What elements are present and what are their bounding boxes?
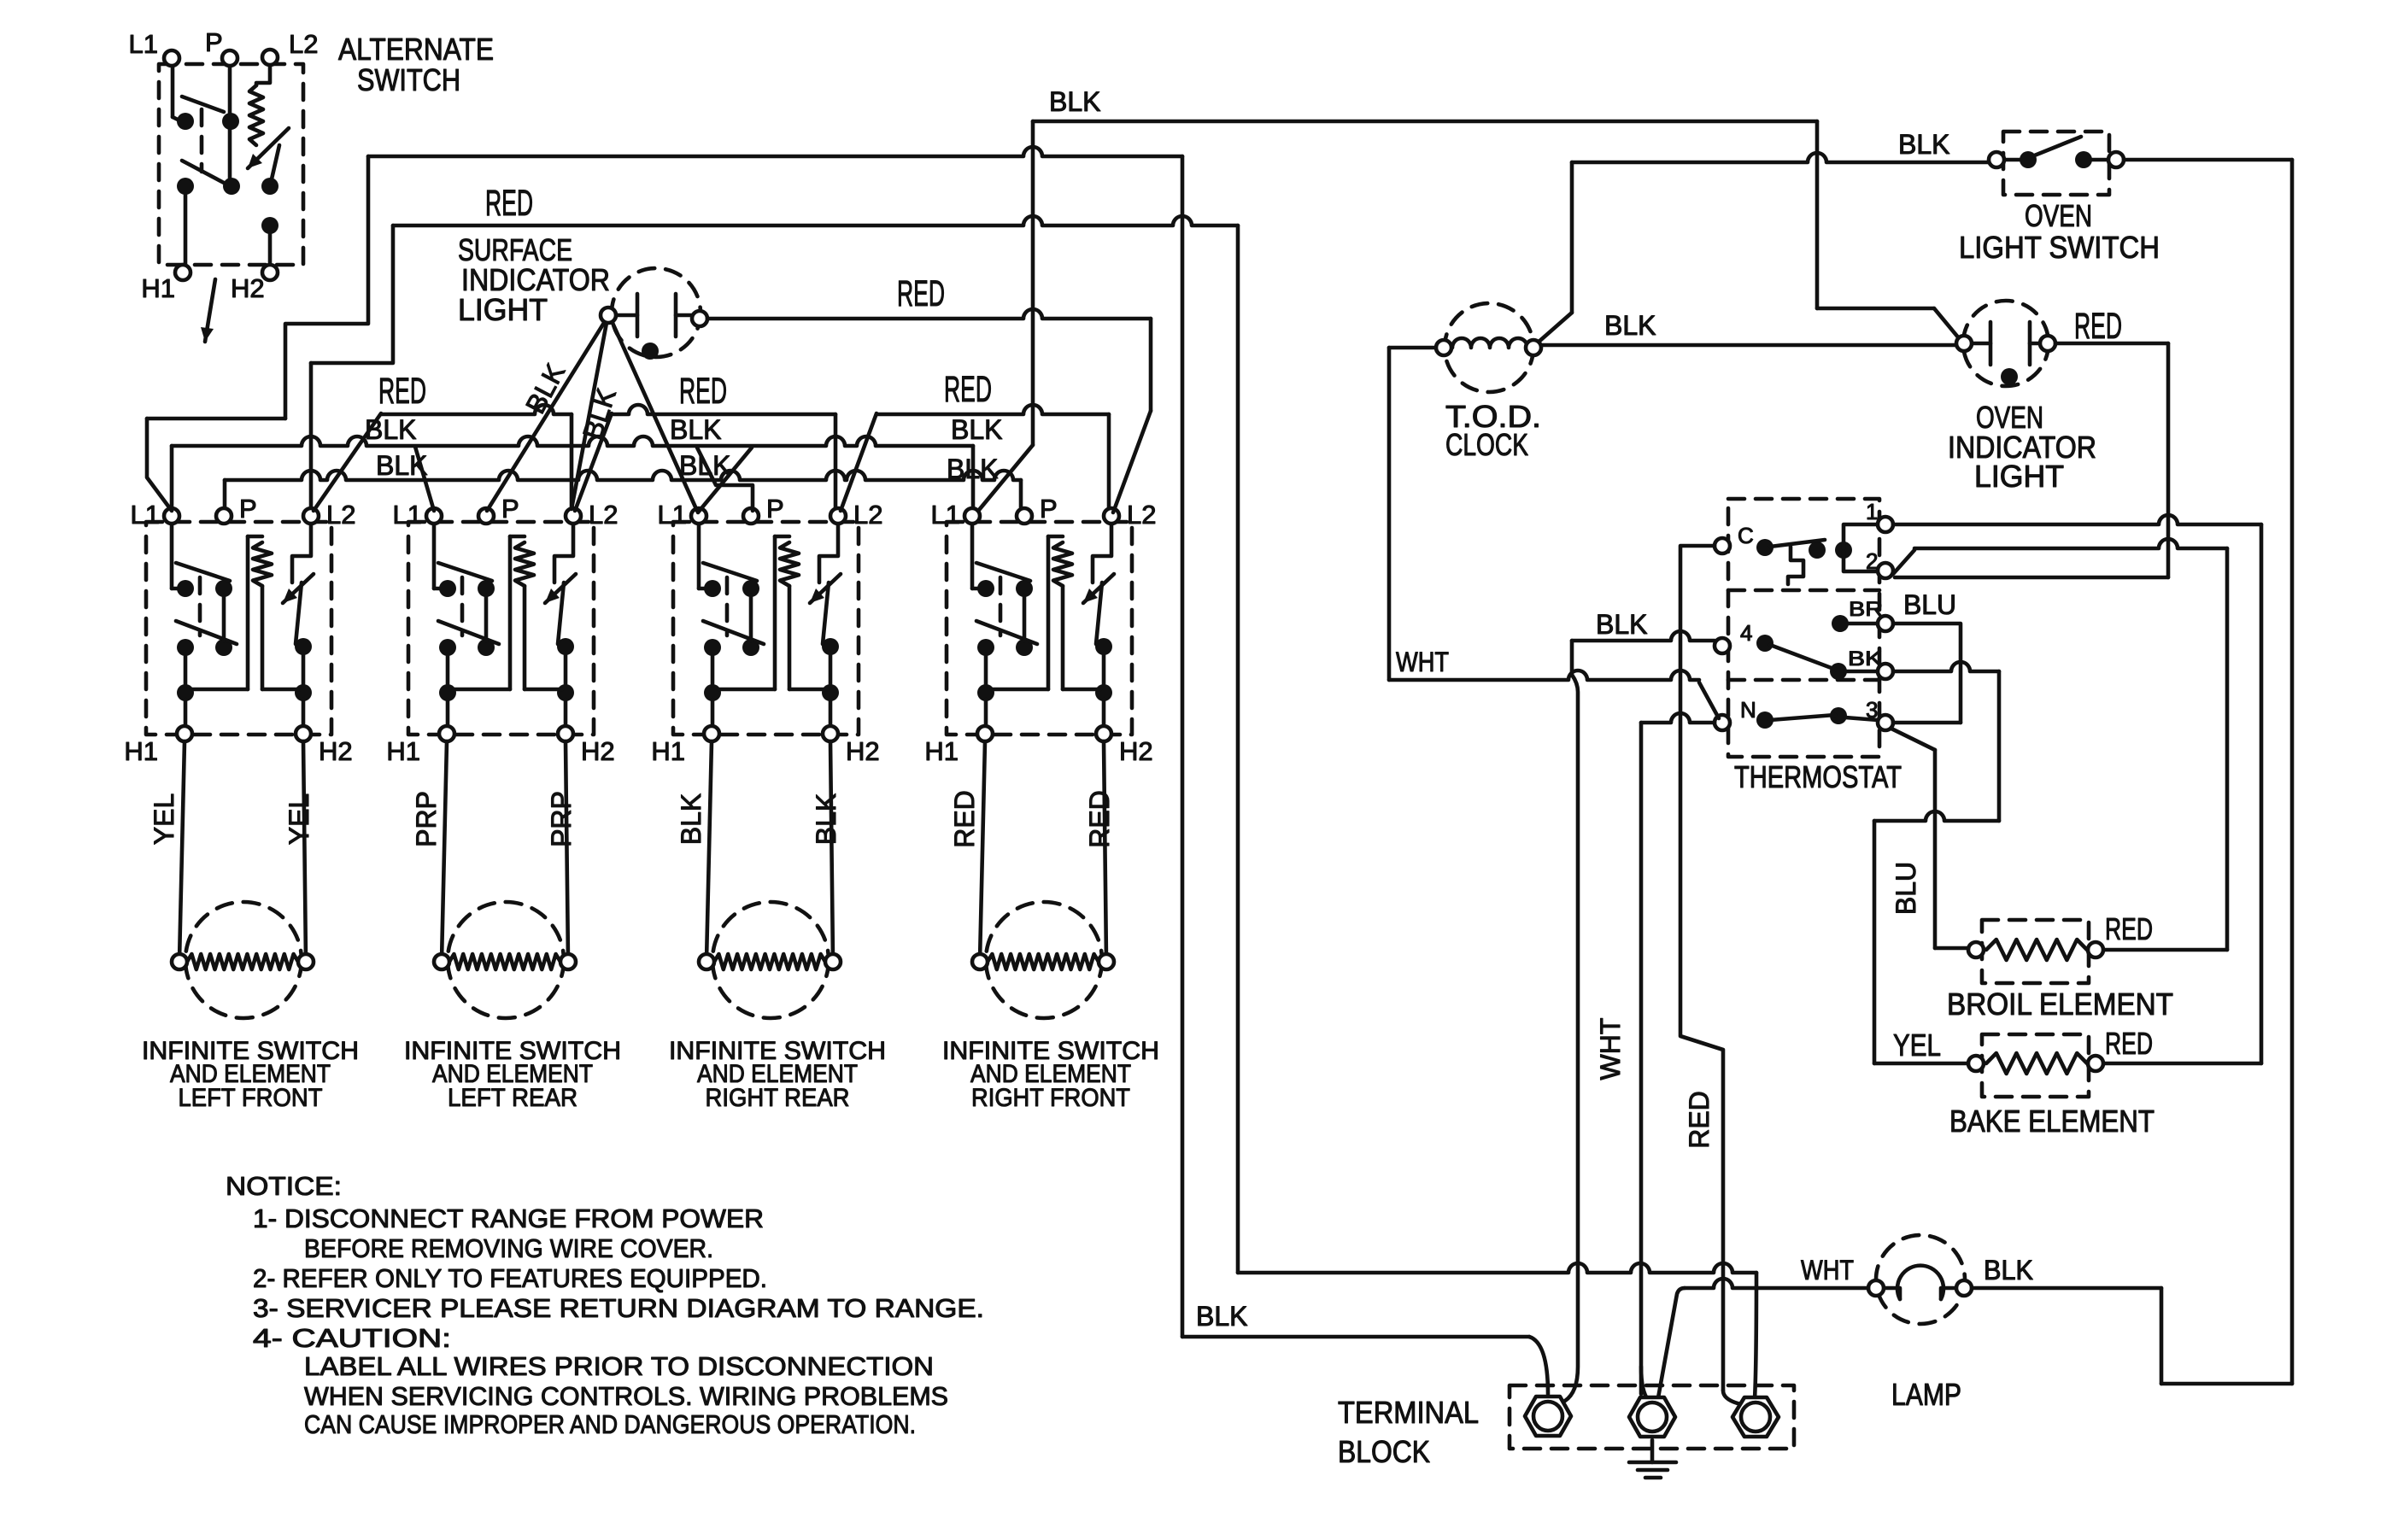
svg-text:CLOCK: CLOCK bbox=[1445, 427, 1528, 462]
svg-text:BAKE ELEMENT: BAKE ELEMENT bbox=[1949, 1104, 2155, 1139]
svg-text:LABEL ALL WIRES PRIOR TO DISCO: LABEL ALL WIRES PRIOR TO DISCONNECTION bbox=[304, 1351, 934, 1381]
svg-text:LIGHT SWITCH: LIGHT SWITCH bbox=[1959, 230, 2160, 265]
svg-text:OVEN: OVEN bbox=[2025, 198, 2092, 233]
svg-text:BR: BR bbox=[1849, 598, 1883, 621]
svg-text:BLK: BLK bbox=[679, 450, 730, 481]
svg-text:P: P bbox=[1040, 494, 1058, 524]
svg-text:RED: RED bbox=[485, 183, 533, 224]
svg-text:RED: RED bbox=[2105, 911, 2153, 946]
svg-text:4: 4 bbox=[1740, 620, 1752, 646]
svg-text:H1: H1 bbox=[124, 736, 158, 766]
svg-text:YEL: YEL bbox=[149, 793, 179, 845]
svg-text:1- DISCONNECT RANGE FROM POWER: 1- DISCONNECT RANGE FROM POWER bbox=[253, 1203, 764, 1233]
svg-text:H1: H1 bbox=[386, 736, 420, 766]
svg-text:L2: L2 bbox=[326, 500, 355, 530]
svg-text:LIGHT: LIGHT bbox=[1974, 459, 2064, 494]
svg-text:2: 2 bbox=[1866, 548, 1878, 574]
svg-text:BLU: BLU bbox=[1891, 862, 1921, 915]
svg-text:3- SERVICER PLEASE RETURN DIAG: 3- SERVICER PLEASE RETURN DIAGRAM TO RAN… bbox=[253, 1293, 984, 1323]
svg-text:BEFORE REMOVING WIRE COVER.: BEFORE REMOVING WIRE COVER. bbox=[304, 1233, 713, 1263]
svg-text:BLK: BLK bbox=[1984, 1255, 2033, 1285]
svg-text:H2: H2 bbox=[581, 736, 615, 766]
svg-text:RED: RED bbox=[378, 371, 426, 412]
svg-text:L2: L2 bbox=[589, 500, 618, 530]
svg-text:C: C bbox=[1738, 523, 1754, 548]
svg-text:YEL: YEL bbox=[284, 793, 314, 845]
svg-text:L2: L2 bbox=[853, 500, 882, 530]
svg-text:H2: H2 bbox=[319, 736, 353, 766]
svg-text:RED: RED bbox=[679, 371, 727, 412]
svg-text:LAMP: LAMP bbox=[1891, 1377, 1961, 1412]
svg-text:L1: L1 bbox=[658, 500, 687, 530]
svg-text:BLK: BLK bbox=[947, 454, 998, 484]
svg-text:BLU: BLU bbox=[1903, 589, 1956, 620]
svg-text:RED: RED bbox=[944, 369, 992, 410]
svg-text:L1: L1 bbox=[393, 500, 422, 530]
svg-text:BLK: BLK bbox=[1596, 609, 1647, 640]
svg-text:WHT: WHT bbox=[1396, 647, 1449, 677]
svg-text:2- REFER ONLY TO FEATURES EQUI: 2- REFER ONLY TO FEATURES EQUIPPED. bbox=[253, 1263, 767, 1293]
svg-text:RED: RED bbox=[1684, 1091, 1715, 1149]
svg-text:BLOCK: BLOCK bbox=[1338, 1434, 1430, 1469]
svg-text:H1: H1 bbox=[651, 736, 685, 766]
svg-text:BLK: BLK bbox=[1049, 86, 1100, 117]
svg-text:L1: L1 bbox=[931, 500, 960, 530]
svg-text:RIGHT REAR: RIGHT REAR bbox=[706, 1084, 850, 1112]
svg-text:N: N bbox=[1740, 697, 1756, 723]
svg-text:BLK: BLK bbox=[1604, 310, 1656, 341]
svg-text:BK: BK bbox=[1848, 647, 1882, 670]
svg-text:RIGHT FRONT: RIGHT FRONT bbox=[971, 1084, 1130, 1112]
svg-text:CAN CAUSE IMPROPER AND DANGERO: CAN CAUSE IMPROPER AND DANGEROUS OPERATI… bbox=[304, 1409, 916, 1439]
svg-text:H2: H2 bbox=[231, 273, 265, 303]
svg-text:LEFT REAR: LEFT REAR bbox=[448, 1084, 577, 1112]
svg-text:WHT: WHT bbox=[1595, 1018, 1626, 1080]
svg-text:PRP: PRP bbox=[546, 791, 577, 847]
svg-text:LEFT FRONT: LEFT FRONT bbox=[179, 1084, 323, 1112]
svg-text:BLK: BLK bbox=[1196, 1301, 1247, 1332]
svg-text:BLK: BLK bbox=[811, 793, 841, 845]
svg-text:H2: H2 bbox=[1119, 736, 1153, 766]
svg-text:ALTERNATE: ALTERNATE bbox=[338, 32, 494, 67]
svg-text:L1: L1 bbox=[129, 29, 158, 59]
svg-text:TERMINAL: TERMINAL bbox=[1338, 1395, 1479, 1430]
svg-text:3: 3 bbox=[1866, 697, 1878, 723]
svg-text:RED: RED bbox=[2105, 1026, 2153, 1061]
svg-text:BLK: BLK bbox=[365, 414, 416, 445]
svg-text:WHT: WHT bbox=[1801, 1255, 1854, 1285]
svg-text:H1: H1 bbox=[924, 736, 959, 766]
svg-text:RED: RED bbox=[897, 273, 945, 314]
svg-text:BLK: BLK bbox=[951, 414, 1002, 445]
svg-text:PRP: PRP bbox=[411, 791, 442, 847]
svg-text:WHEN SERVICING CONTROLS. WIRIN: WHEN SERVICING CONTROLS. WIRING PROBLEMS bbox=[304, 1381, 948, 1411]
svg-text:SWITCH: SWITCH bbox=[357, 62, 460, 97]
svg-text:L1: L1 bbox=[131, 500, 160, 530]
svg-text:BLK: BLK bbox=[676, 793, 706, 845]
svg-text:L2: L2 bbox=[289, 29, 318, 59]
svg-text:P: P bbox=[239, 494, 257, 524]
svg-text:RED: RED bbox=[949, 790, 980, 848]
svg-text:P: P bbox=[766, 494, 784, 524]
svg-text:H2: H2 bbox=[846, 736, 880, 766]
svg-text:L2: L2 bbox=[1127, 500, 1156, 530]
svg-text:RED: RED bbox=[2074, 306, 2122, 347]
svg-text:P: P bbox=[501, 494, 519, 524]
svg-text:BLK: BLK bbox=[1898, 129, 1949, 160]
svg-text:4- CAUTION:: 4- CAUTION: bbox=[253, 1323, 451, 1353]
svg-text:LIGHT: LIGHT bbox=[458, 292, 548, 327]
svg-text:BLK: BLK bbox=[670, 414, 721, 445]
svg-text:BROIL ELEMENT: BROIL ELEMENT bbox=[1947, 987, 2173, 1022]
svg-text:1: 1 bbox=[1866, 499, 1878, 524]
svg-text:THERMOSTAT: THERMOSTAT bbox=[1734, 759, 1902, 794]
svg-text:RED: RED bbox=[1084, 790, 1115, 848]
svg-text:BLK: BLK bbox=[376, 450, 427, 481]
svg-text:H1: H1 bbox=[141, 273, 175, 303]
svg-text:NOTICE:: NOTICE: bbox=[226, 1171, 342, 1201]
svg-text:YEL: YEL bbox=[1893, 1028, 1941, 1063]
svg-text:P: P bbox=[205, 27, 223, 57]
